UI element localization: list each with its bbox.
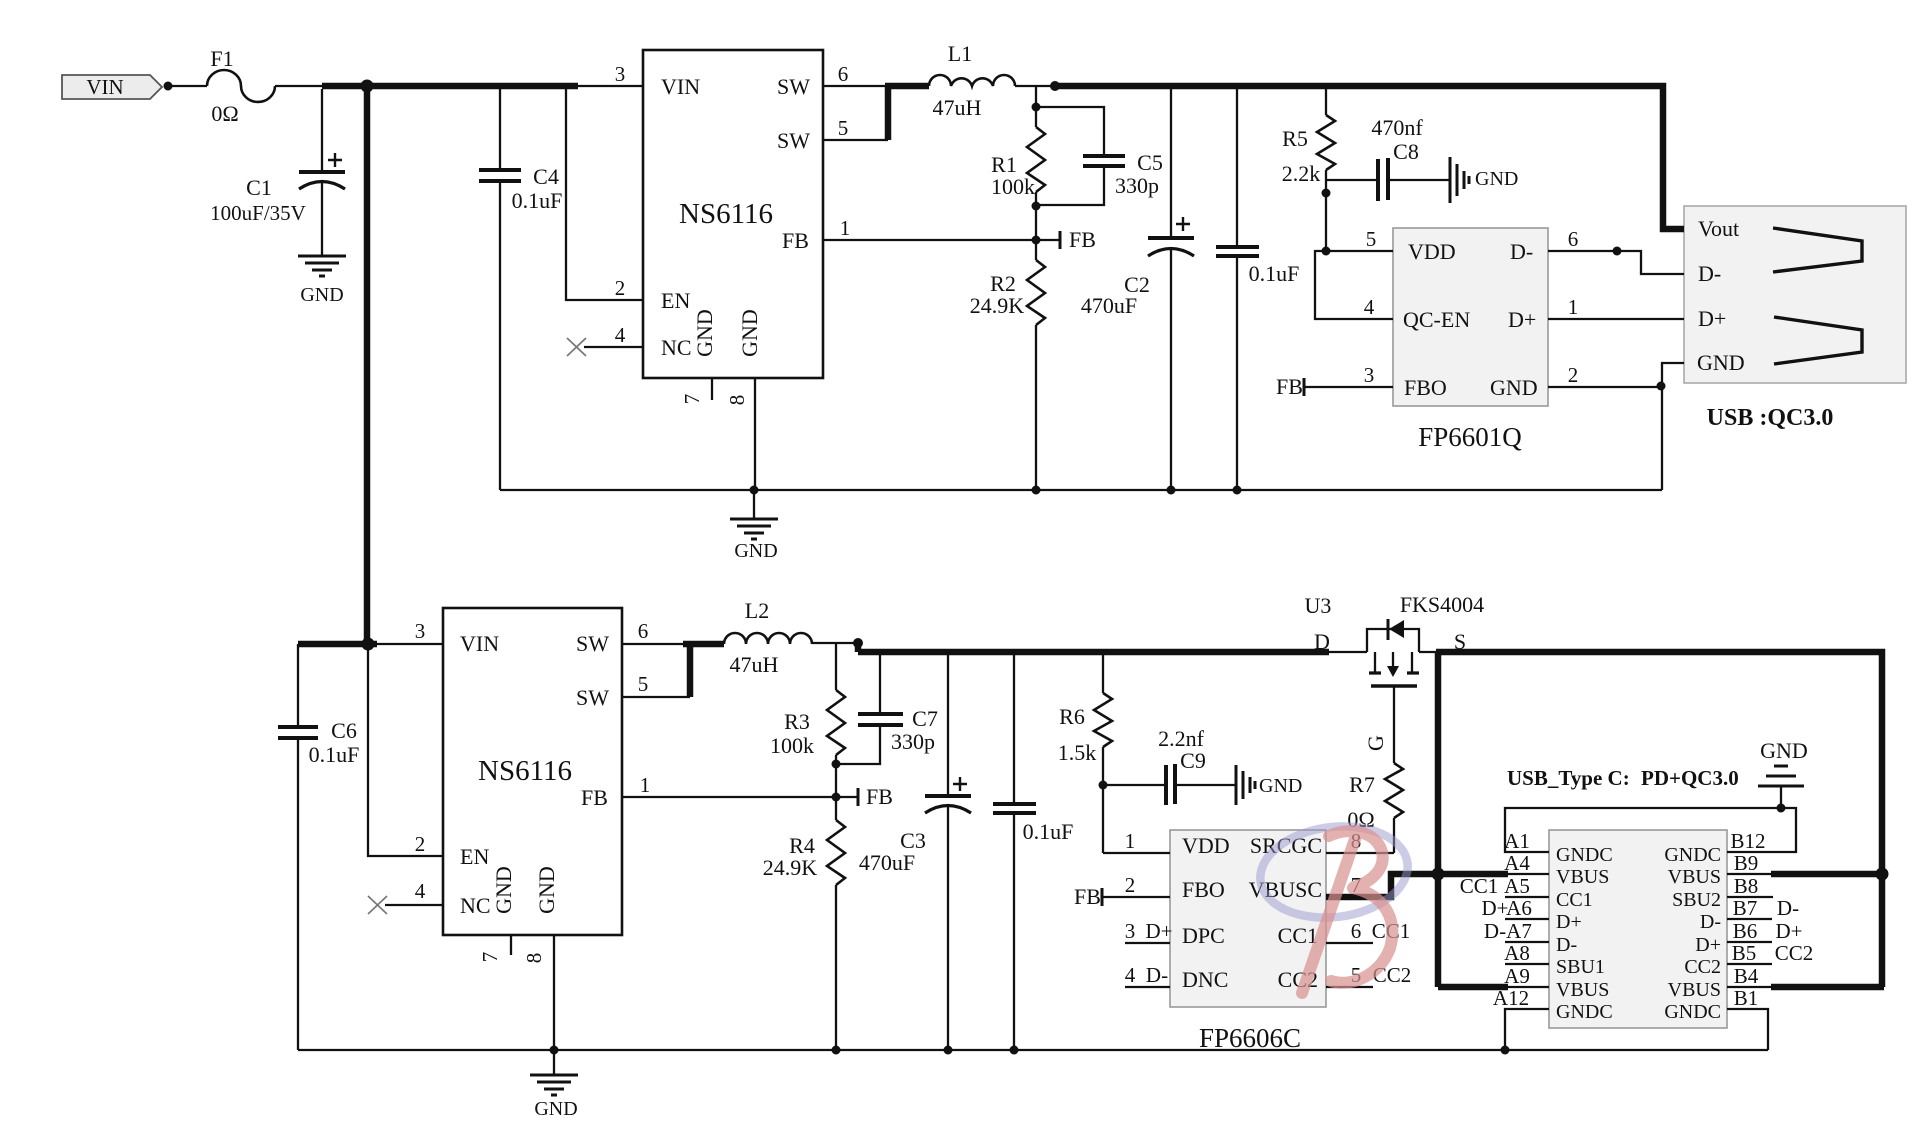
- svg-text:8: 8: [522, 953, 546, 964]
- svg-text:D: D: [1314, 629, 1330, 654]
- svg-text:R5: R5: [1282, 126, 1308, 151]
- svg-text:GNDC: GNDC: [1556, 844, 1613, 866]
- svg-text:D+: D+: [1481, 896, 1508, 920]
- svg-text:NS6116: NS6116: [478, 755, 572, 787]
- svg-text:CC1: CC1: [1278, 923, 1318, 948]
- svg-text:3: 3: [1125, 919, 1136, 943]
- svg-text:VBUS: VBUS: [1556, 979, 1609, 1001]
- svg-text:3: 3: [615, 62, 626, 86]
- svg-text:A12: A12: [1493, 986, 1529, 1010]
- svg-text:GND: GND: [734, 540, 777, 562]
- svg-text:B9: B9: [1734, 851, 1759, 875]
- svg-text:SW: SW: [777, 128, 810, 153]
- svg-text:B7: B7: [1733, 896, 1758, 920]
- svg-text:NS6116: NS6116: [679, 198, 773, 230]
- svg-text:1: 1: [1568, 295, 1579, 319]
- svg-text:FP6601Q: FP6601Q: [1418, 422, 1522, 452]
- svg-text:A7: A7: [1506, 919, 1532, 943]
- svg-text:A5: A5: [1504, 874, 1530, 898]
- svg-text:7: 7: [680, 394, 704, 405]
- svg-text:GND: GND: [692, 309, 717, 357]
- svg-text:C7: C7: [912, 706, 938, 731]
- svg-text:0.1uF: 0.1uF: [309, 742, 360, 767]
- svg-text:FBO: FBO: [1182, 877, 1225, 902]
- svg-text:D+: D+: [1556, 911, 1582, 933]
- svg-text:47uH: 47uH: [730, 652, 779, 677]
- svg-text:S: S: [1454, 629, 1466, 654]
- svg-text:D-: D-: [1556, 934, 1577, 956]
- svg-text:SBU2: SBU2: [1672, 889, 1721, 911]
- svg-text:5: 5: [638, 672, 649, 696]
- svg-text:VIN: VIN: [460, 631, 499, 656]
- svg-text:2: 2: [415, 832, 426, 856]
- svg-text:D-: D-: [1700, 911, 1721, 933]
- svg-text:24.9K: 24.9K: [970, 293, 1025, 318]
- svg-text:2: 2: [1125, 873, 1136, 897]
- svg-text:D+: D+: [1695, 934, 1721, 956]
- svg-text:GND: GND: [1760, 738, 1808, 763]
- svg-text:VBUS: VBUS: [1668, 979, 1721, 1001]
- svg-text:GNDC: GNDC: [1664, 844, 1721, 866]
- svg-text:PD+QC3.0: PD+QC3.0: [1641, 766, 1739, 790]
- svg-text:GND: GND: [737, 309, 762, 357]
- svg-text:1.5k: 1.5k: [1058, 740, 1097, 765]
- svg-text:GNDC: GNDC: [1664, 1001, 1721, 1023]
- svg-text:6: 6: [1351, 919, 1362, 943]
- svg-text:6: 6: [838, 62, 849, 86]
- svg-text:330p: 330p: [1115, 173, 1159, 198]
- svg-text:VIN: VIN: [661, 74, 700, 99]
- svg-text:6: 6: [638, 619, 649, 643]
- svg-text:VDD: VDD: [1182, 833, 1230, 858]
- svg-text:2.2k: 2.2k: [1282, 161, 1321, 186]
- svg-text:3: 3: [1364, 363, 1375, 387]
- svg-text:DNC: DNC: [1182, 967, 1228, 992]
- svg-text:B6: B6: [1733, 919, 1758, 943]
- svg-text:GNDC: GNDC: [1556, 1001, 1613, 1023]
- svg-text:470uF: 470uF: [859, 850, 915, 875]
- svg-text:C9: C9: [1180, 748, 1206, 773]
- svg-text:FKS4004: FKS4004: [1400, 592, 1484, 617]
- svg-text:GND: GND: [1259, 775, 1302, 797]
- svg-text:D-: D-: [1484, 919, 1506, 943]
- svg-text:SW: SW: [576, 685, 609, 710]
- svg-text:SBU1: SBU1: [1556, 956, 1605, 978]
- svg-text:24.9K: 24.9K: [763, 855, 818, 880]
- svg-text:F1: F1: [210, 46, 233, 71]
- svg-text:470nf: 470nf: [1371, 115, 1423, 140]
- svg-text:C5: C5: [1137, 150, 1163, 175]
- svg-text:D-: D-: [1698, 261, 1721, 286]
- svg-text:G: G: [1363, 735, 1388, 751]
- svg-text:VBUS: VBUS: [1668, 866, 1721, 888]
- svg-text:FB: FB: [1074, 884, 1101, 909]
- svg-text:R7: R7: [1349, 772, 1375, 797]
- svg-text:GND: GND: [1697, 350, 1745, 375]
- svg-text:47uH: 47uH: [933, 95, 982, 120]
- svg-text:5: 5: [1366, 227, 1377, 251]
- svg-text:1: 1: [840, 216, 851, 240]
- svg-text:D-: D-: [1146, 963, 1168, 987]
- svg-text:D+: D+: [1508, 307, 1536, 332]
- svg-text:D+: D+: [1775, 919, 1802, 943]
- svg-text:FP6606C: FP6606C: [1199, 1023, 1301, 1053]
- svg-text:USB :QC3.0: USB :QC3.0: [1707, 405, 1834, 431]
- svg-text:NC: NC: [661, 335, 692, 360]
- svg-text:100k: 100k: [991, 174, 1035, 199]
- svg-text:B8: B8: [1734, 874, 1759, 898]
- svg-text:L1: L1: [948, 41, 972, 66]
- svg-text:FB: FB: [782, 228, 809, 253]
- svg-text:VBUS: VBUS: [1556, 866, 1609, 888]
- svg-text:C4: C4: [533, 164, 559, 189]
- svg-text:4: 4: [1364, 295, 1375, 319]
- svg-text:6: 6: [1568, 227, 1579, 251]
- svg-text:L2: L2: [745, 598, 769, 623]
- svg-text:1: 1: [1125, 829, 1136, 853]
- svg-text:100k: 100k: [770, 733, 814, 758]
- svg-text:CC2: CC2: [1684, 956, 1721, 978]
- svg-text:USB_Type C:: USB_Type C:: [1507, 766, 1630, 790]
- svg-text:8: 8: [725, 395, 749, 406]
- svg-text:470uF: 470uF: [1081, 293, 1137, 318]
- svg-text:R6: R6: [1059, 704, 1085, 729]
- svg-text:VIN: VIN: [86, 75, 123, 99]
- svg-text:0.1uF: 0.1uF: [1249, 261, 1300, 286]
- svg-text:0.1uF: 0.1uF: [1023, 819, 1074, 844]
- svg-text:C1: C1: [246, 175, 272, 200]
- svg-text:5: 5: [838, 116, 849, 140]
- svg-text:A1: A1: [1504, 829, 1530, 853]
- svg-text:B12: B12: [1730, 829, 1765, 853]
- svg-text:2: 2: [615, 276, 626, 300]
- svg-text:QC-EN: QC-EN: [1403, 307, 1470, 332]
- svg-text:330p: 330p: [891, 729, 935, 754]
- svg-text:D-: D-: [1510, 239, 1533, 264]
- svg-text:4: 4: [415, 879, 426, 903]
- svg-text:A9: A9: [1504, 964, 1530, 988]
- svg-text:CC2: CC2: [1775, 941, 1814, 965]
- svg-text:B1: B1: [1734, 986, 1759, 1010]
- svg-text:C8: C8: [1393, 139, 1419, 164]
- svg-text:R3: R3: [784, 709, 810, 734]
- svg-text:C6: C6: [331, 718, 357, 743]
- svg-text:DPC: DPC: [1182, 923, 1225, 948]
- svg-text:1: 1: [640, 773, 651, 797]
- svg-text:FB: FB: [1069, 227, 1096, 252]
- svg-text:FB: FB: [866, 784, 893, 809]
- svg-text:GND: GND: [300, 284, 343, 306]
- svg-text:D+: D+: [1698, 306, 1726, 331]
- svg-text:GND: GND: [491, 866, 516, 914]
- svg-text:VDD: VDD: [1408, 239, 1456, 264]
- svg-text:A8: A8: [1504, 941, 1530, 965]
- svg-text:FBO: FBO: [1404, 375, 1447, 400]
- svg-text:100uF/35V: 100uF/35V: [210, 201, 306, 225]
- svg-text:U3: U3: [1305, 593, 1332, 618]
- svg-text:Vout: Vout: [1698, 216, 1739, 241]
- svg-text:A4: A4: [1504, 851, 1530, 875]
- svg-text:SW: SW: [576, 631, 609, 656]
- svg-text:CC1: CC1: [1460, 874, 1499, 898]
- svg-text:0.1uF: 0.1uF: [512, 188, 563, 213]
- svg-text:A6: A6: [1506, 896, 1532, 920]
- svg-text:D+: D+: [1145, 919, 1172, 943]
- svg-text:EN: EN: [460, 844, 489, 869]
- svg-text:CC1: CC1: [1556, 889, 1593, 911]
- svg-text:SW: SW: [777, 74, 810, 99]
- svg-text:B5: B5: [1732, 941, 1757, 965]
- svg-text:FB: FB: [1276, 374, 1303, 399]
- svg-text:GND: GND: [1490, 375, 1538, 400]
- svg-text:2: 2: [1568, 363, 1579, 387]
- svg-text:GND: GND: [534, 866, 559, 914]
- svg-text:0Ω: 0Ω: [211, 101, 238, 126]
- svg-text:EN: EN: [661, 288, 690, 313]
- svg-text:4: 4: [1125, 963, 1136, 987]
- svg-text:B4: B4: [1734, 964, 1759, 988]
- svg-text:GND: GND: [534, 1098, 577, 1120]
- svg-text:NC: NC: [460, 893, 491, 918]
- svg-text:GND: GND: [1475, 168, 1518, 190]
- svg-text:FB: FB: [581, 785, 608, 810]
- svg-text:D-: D-: [1777, 896, 1799, 920]
- svg-text:3: 3: [415, 619, 426, 643]
- svg-text:4: 4: [615, 323, 626, 347]
- svg-text:7: 7: [478, 952, 502, 963]
